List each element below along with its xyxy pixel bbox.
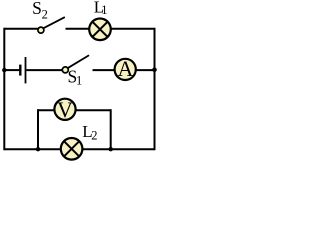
lamp L1 [89,19,111,41]
svg-text:1: 1 [101,3,107,17]
wire left vertical [3,28,5,150]
junction node bottom left [36,147,40,151]
switch S1 pivot [62,67,68,73]
wire right vertical [154,28,156,150]
svg-text:V: V [57,97,73,122]
svg-text:2: 2 [91,128,97,142]
junction node left battery [2,68,6,72]
wire top-right segment [66,28,155,30]
svg-text:A: A [117,56,133,81]
lamp L2 [61,138,83,160]
switch S2 blade [44,17,64,28]
switch S1 blade [68,56,88,68]
junction node right ammeter [152,67,157,72]
ammeter A [115,56,136,81]
battery B1 long plate [25,57,27,83]
wire voltmeter branch left vertical [37,109,39,149]
svg-text:S: S [32,0,42,18]
wire top-left segment [4,28,38,30]
svg-text:1: 1 [76,74,82,88]
wire battery to S1 [26,69,62,71]
wire battery left [4,69,19,71]
wire voltmeter branch right vertical [110,109,112,149]
battery B1 short plate [19,65,21,76]
svg-text:2: 2 [42,8,48,22]
wire voltmeter branch horizontal [38,109,111,111]
voltmeter V [54,97,75,122]
wire S1 contact to right vertical [93,69,155,71]
junction node bottom right [109,147,113,151]
wire bottom [4,148,154,150]
switch S2 pivot [38,27,44,33]
